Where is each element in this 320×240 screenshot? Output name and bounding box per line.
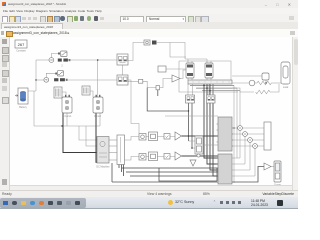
demux	[117, 135, 125, 165]
small sum below vblock	[197, 154, 200, 157]
wire triangle to scope	[271, 166, 274, 168]
wire rl loop	[232, 84, 279, 92]
wire sum4 to resistor	[255, 82, 257, 84]
demux inner	[120, 137, 122, 163]
gray B pins	[217, 158, 219, 176]
status bar	[0, 190, 298, 198]
down triangle	[190, 160, 196, 166]
wire row1 sum stub	[36, 59, 49, 61]
wire conv B pin short	[99, 113, 101, 126]
converter A	[62, 97, 72, 113]
switch B inner	[119, 77, 123, 82]
measurement small block	[262, 73, 269, 80]
wire long bottom rail (dark)	[112, 167, 264, 183]
wire row1 to switch A	[70, 59, 117, 61]
bridge B	[205, 63, 213, 78]
pwm B	[82, 86, 90, 95]
wire sum feed vertical	[35, 60, 37, 91]
wire bus dropdown ladder h	[190, 85, 240, 90]
wire bridge rail 1	[185, 58, 207, 60]
wire sat1 to sum1	[51, 54, 60, 58]
wire row2 sum stub	[36, 79, 44, 81]
block B	[156, 86, 160, 90]
toolbar	[0, 14, 298, 23]
wire main dc rail	[34, 125, 100, 127]
vertical block	[195, 136, 203, 154]
scope	[274, 161, 281, 182]
wire grayB right pins	[232, 158, 255, 176]
chain B block2	[149, 152, 158, 161]
switch block A	[117, 54, 128, 65]
wire gate rail drop b	[86, 126, 97, 146]
battery inner	[20, 91, 25, 93]
wire sat2 to sum2	[46, 73, 57, 77]
wire top chain to bridges	[157, 43, 185, 60]
BLOCKS	[15, 40, 290, 184]
wire chain B links	[146, 156, 175, 158]
sum S2	[44, 77, 49, 82]
chain A block3	[164, 134, 170, 140]
gain pair 1	[58, 59, 62, 62]
wire demux bottom bundle (dark)	[119, 165, 218, 177]
svg-text:Conv2: Conv2	[94, 115, 102, 118]
conv B devices	[96, 100, 100, 104]
wire demux to chain A	[125, 137, 140, 141]
chain B block3	[164, 154, 170, 160]
bridge A devices	[187, 65, 193, 68]
converter B	[93, 97, 103, 113]
wire grayA to right sums	[232, 128, 253, 146]
svg-text:Load: Load	[283, 86, 289, 89]
battery source	[18, 88, 28, 104]
top gain dark	[152, 41, 157, 45]
wire switch A-B link	[122, 65, 124, 75]
sat curves	[61, 52, 66, 55]
wire block B down-right (dark)	[147, 88, 188, 111]
chain B gain	[175, 152, 182, 160]
wire chain A out (dark)	[182, 135, 219, 137]
wire vblock out	[203, 144, 218, 146]
bridge A	[186, 63, 194, 78]
wire ladder verticals	[234, 85, 240, 183]
chain A block1	[139, 134, 146, 141]
right scrollbar	[292, 37, 298, 190]
wire switch B to sum3	[128, 80, 139, 82]
svg-text:DC Machine: DC Machine	[96, 166, 110, 169]
svg-text:Conv1: Conv1	[65, 115, 73, 118]
machine right	[281, 62, 290, 84]
wire battery out	[28, 91, 36, 126]
gain pair 2	[54, 78, 58, 81]
breadcrumb bar	[0, 29, 298, 38]
wire pwm B to conv B	[90, 91, 93, 97]
wire switch A out to top chain	[128, 43, 144, 61]
switch A inner	[119, 57, 123, 62]
svg-text:267: 267	[18, 42, 25, 47]
INNER DETAILS	[15, 42, 289, 187]
wire bridge rail 2	[179, 61, 238, 92]
wire sums bottom verticals	[240, 130, 255, 176]
top small block	[144, 40, 150, 45]
driver block C2	[207, 95, 216, 103]
wire top drop 2	[170, 43, 186, 58]
port mark 2	[55, 73, 57, 75]
wire conv B armature (dark)	[96, 113, 104, 162]
measurement tall block	[264, 122, 271, 150]
constant block 267	[15, 40, 27, 48]
wire demux to chain B	[125, 157, 140, 161]
sum S1	[49, 58, 54, 63]
wire sums to meas block	[242, 128, 264, 146]
constant 2	[158, 66, 166, 72]
tab bar	[0, 22, 298, 29]
machine inner	[100, 141, 105, 146]
saturation 1	[61, 51, 68, 57]
menu bar	[0, 8, 298, 14]
pwm A	[54, 87, 62, 98]
wire bottom loop (dark)	[159, 168, 217, 181]
canvas	[10, 37, 292, 190]
wire meas input	[232, 75, 262, 77]
dc machine	[97, 137, 109, 164]
wire gain to bridge A	[180, 70, 186, 79]
sum S4	[249, 80, 255, 86]
wire mid vertical pair (dark)	[189, 103, 193, 148]
wire bus to driver pins	[188, 84, 213, 95]
conv A devices	[65, 100, 69, 104]
wire row2 to switch B	[68, 79, 117, 81]
wire pwm A to conv A	[62, 92, 66, 97]
wire resistor to machine	[274, 82, 281, 84]
out gain triangle	[264, 163, 271, 170]
wire gate rail drop a	[79, 126, 97, 140]
wire machine bottom drop	[111, 163, 113, 182]
svg-text:Constant: Constant	[16, 50, 26, 53]
bottom canvas scrollbar	[10, 185, 292, 190]
wire const2 out	[166, 68, 186, 70]
resistor R zigzag	[257, 81, 274, 85]
gray subsystem A	[218, 117, 232, 151]
chain A gain	[175, 132, 182, 140]
wire vblock inputs	[189, 141, 196, 148]
wire feedback node to conv B top	[97, 60, 99, 97]
wire cross rail	[165, 115, 218, 117]
port mark 1	[58, 53, 60, 55]
wire sum3 to block B	[143, 81, 156, 87]
wire bridge pins	[188, 59, 211, 80]
saturation 2	[57, 71, 63, 76]
wire bus to grayB pins (dark)	[204, 84, 218, 176]
chain A block2	[149, 132, 158, 141]
switch block B	[117, 75, 128, 85]
wire conv A pin short	[66, 113, 68, 126]
wire meas drop	[265, 80, 267, 83]
wire rl input	[232, 82, 249, 84]
sum S3	[139, 79, 143, 83]
svg-text:2: 2	[61, 65, 63, 68]
bridge B devices	[206, 65, 212, 68]
dc bus strip	[188, 80, 232, 84]
wire conv A armature (dark)	[63, 113, 97, 153]
wire chain B out (dark)	[182, 155, 219, 157]
wire switch B out drop to chain A	[128, 80, 139, 133]
svg-text:Battery: Battery	[19, 106, 27, 109]
right sums	[238, 126, 243, 131]
left palette	[0, 37, 10, 190]
chain B block1	[139, 154, 146, 161]
wire block B to gain	[160, 79, 172, 88]
taskbar	[0, 197, 298, 209]
gray A pins	[217, 124, 234, 146]
inductor L zigzag	[256, 90, 270, 94]
wire chain A links	[146, 136, 175, 138]
driver block C1	[186, 95, 195, 103]
title bar	[0, 0, 298, 9]
gain triangle	[172, 75, 180, 82]
gray subsystem B	[218, 154, 232, 184]
